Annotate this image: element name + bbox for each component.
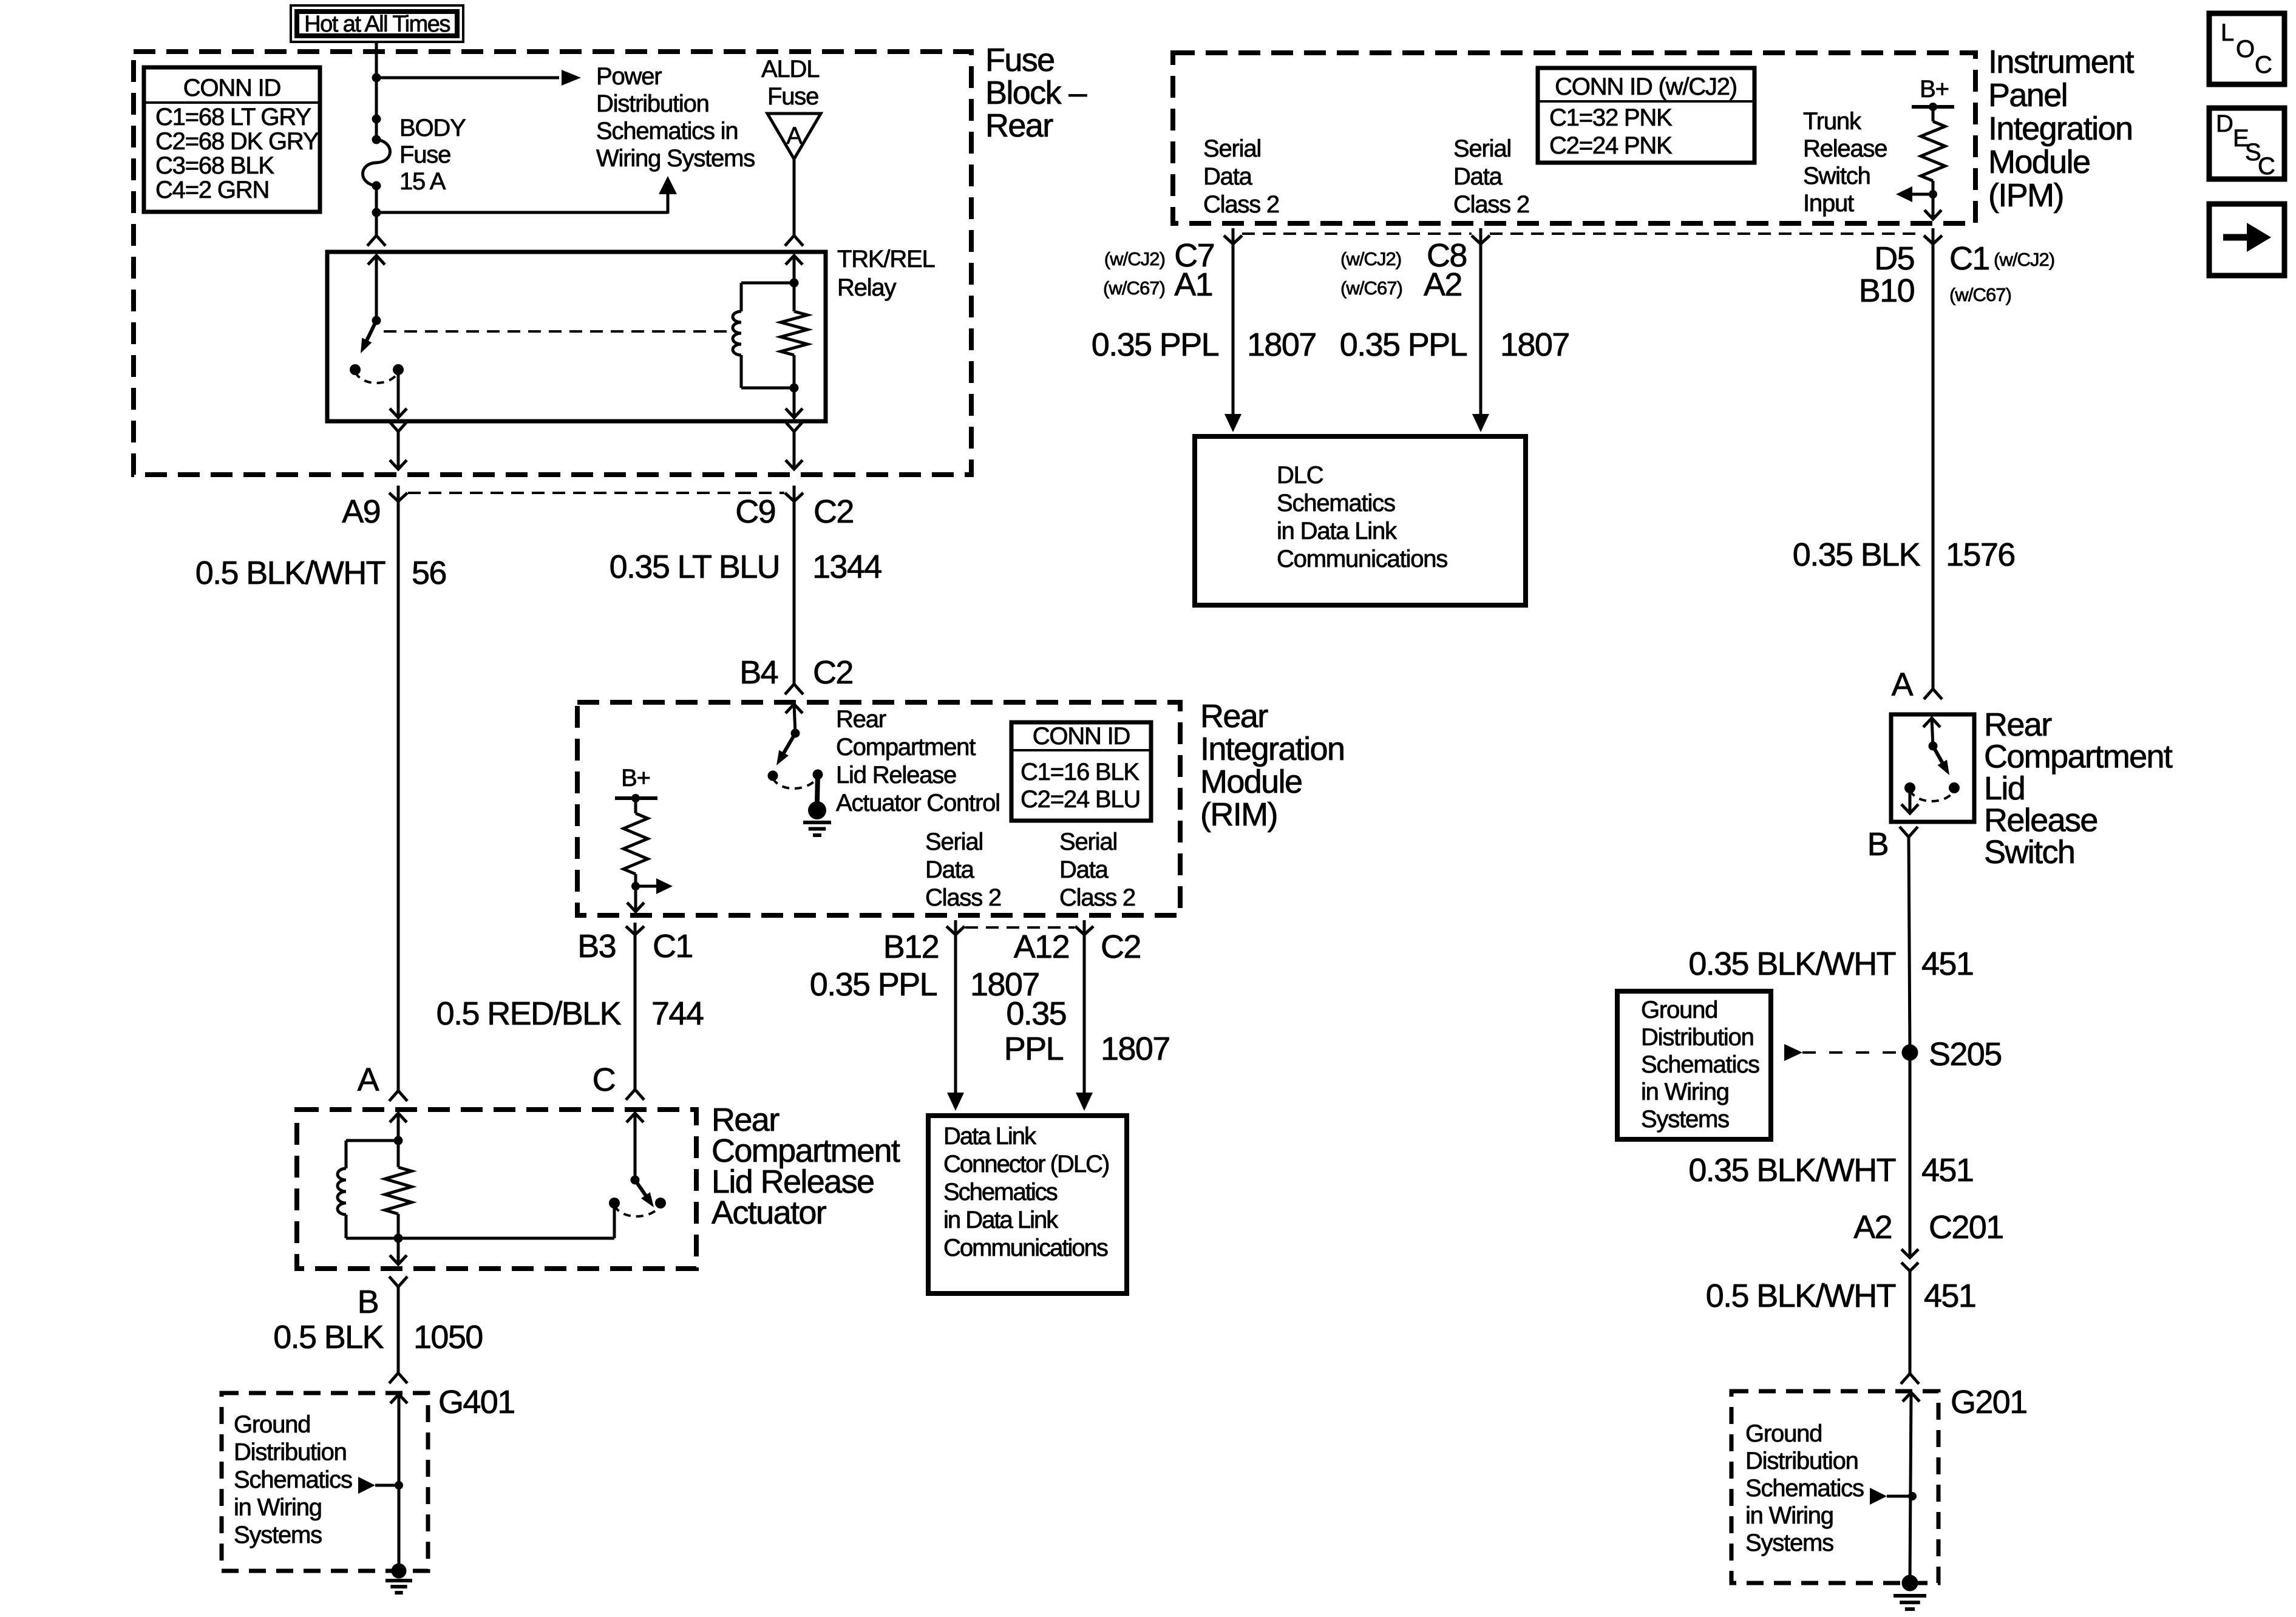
svg-text:Distribution: Distribution xyxy=(596,90,709,117)
connector dashed line B12-A12 xyxy=(965,926,1075,929)
RIM switch pivot dot xyxy=(791,729,800,738)
svg-text:744: 744 xyxy=(651,995,704,1032)
label Serial Data Class 2 (RIM right) xyxy=(1059,829,1135,911)
svg-text:Systems: Systems xyxy=(234,1522,322,1548)
wire 1807 (A12 serial data) xyxy=(1076,935,1093,1111)
svg-text:Input: Input xyxy=(1803,190,1854,217)
relay switch output wire xyxy=(390,370,407,418)
coil actuator solenoid xyxy=(338,1141,398,1238)
svg-text:0.35 BLK/WHT: 0.35 BLK/WHT xyxy=(1688,1152,1895,1188)
svg-text:1807: 1807 xyxy=(1101,1031,1170,1067)
legend box arrow xyxy=(2209,204,2284,276)
label Ground Distribution Schematics in Wiring Systems (G401) xyxy=(234,1411,352,1548)
label Serial Data Class 2 (IPM right) xyxy=(1453,135,1529,218)
junction dot xyxy=(1929,190,1937,198)
label Power Distribution Schematics in Wiring Systems xyxy=(596,63,755,172)
svg-text:Switch: Switch xyxy=(1803,163,1870,189)
actuator entry arrow C xyxy=(627,1113,644,1180)
pin label A (actuator) xyxy=(358,1062,379,1098)
svg-text:Integration: Integration xyxy=(1200,731,1344,767)
svg-text:(w/CJ2): (w/CJ2) xyxy=(1994,249,2054,270)
svg-text:ALDL: ALDL xyxy=(761,56,819,83)
legend box LOC xyxy=(2209,13,2284,84)
junction dot xyxy=(372,208,381,217)
wire label 0.35 BLK/WHT 451 (upper) xyxy=(1688,946,1973,982)
wire label 0.35 LT BLU 1344 xyxy=(610,549,882,585)
pin label C9 xyxy=(735,493,775,530)
svg-text:(w/CJ2): (w/CJ2) xyxy=(1340,248,1401,269)
CONN ID table (RIM) xyxy=(1011,722,1151,821)
wire 1807 (C7 serial data) xyxy=(1224,244,1241,432)
svg-text:451: 451 xyxy=(1921,1152,1973,1188)
svg-text:A2: A2 xyxy=(1424,266,1462,303)
svg-text:Data: Data xyxy=(1203,163,1253,190)
svg-text:Trunk: Trunk xyxy=(1803,108,1862,135)
G201 reference arrow xyxy=(1870,1488,1912,1505)
svg-text:C: C xyxy=(2258,153,2275,180)
reference box Data Link Connector (DLC) Schematics xyxy=(928,1116,1127,1293)
connector stub B12 xyxy=(946,920,965,935)
svg-text:C2=24 BLU: C2=24 BLU xyxy=(1021,786,1140,813)
svg-text:Class 2: Class 2 xyxy=(1203,191,1279,218)
label S205 xyxy=(1929,1036,2002,1073)
wire label 0.35 PPL 1807 (A12) xyxy=(1004,995,1170,1067)
pin label D5 B10 xyxy=(1859,240,1914,309)
svg-text:DLC: DLC xyxy=(1277,462,1323,489)
svg-text:Lid Release: Lid Release xyxy=(836,762,956,788)
legend box DESC xyxy=(2209,108,2284,180)
connector dashed line C7-C8-D5 xyxy=(1242,232,1923,235)
RIM switch ground xyxy=(803,775,831,835)
svg-text:Actuator: Actuator xyxy=(712,1195,827,1231)
svg-text:(IPM): (IPM) xyxy=(1988,177,2063,214)
module label Instrument Panel Integration Module (IPM) xyxy=(1988,44,2135,214)
svg-text:C1=16 BLK: C1=16 BLK xyxy=(1021,759,1140,785)
svg-text:Communications: Communications xyxy=(943,1235,1108,1261)
module Instrument Panel Integration Module (dashed box) xyxy=(1173,53,1975,223)
wire branch to Power Distribution + arrow xyxy=(376,70,581,86)
svg-text:B3: B3 xyxy=(577,928,616,964)
label Serial Data Class 2 (RIM left) xyxy=(925,829,1001,911)
svg-text:C2: C2 xyxy=(813,654,853,691)
IPM trunk release input arrow (left) xyxy=(1896,186,1933,202)
relay switch contact dots xyxy=(350,364,404,375)
svg-text:Module: Module xyxy=(1200,764,1302,800)
wire label 0.5 BLK 1050 xyxy=(273,1319,482,1355)
junction dot xyxy=(372,115,381,124)
svg-text:1576: 1576 xyxy=(1946,537,2015,573)
relay switch arm (movable contact) xyxy=(361,320,376,353)
svg-text:D: D xyxy=(2216,110,2233,137)
connector stub A12 xyxy=(1075,920,1093,935)
label ALDL Fuse xyxy=(761,56,819,110)
svg-text:CONN ID: CONN ID xyxy=(183,75,281,101)
svg-text:(w/C67): (w/C67) xyxy=(1340,277,1402,299)
svg-text:0.35 PPL: 0.35 PPL xyxy=(810,966,937,1003)
svg-text:(w/C67): (w/C67) xyxy=(1103,277,1165,299)
svg-text:Ground: Ground xyxy=(1641,997,1717,1023)
svg-text:1050: 1050 xyxy=(413,1319,483,1355)
actuator switch pivot dot xyxy=(631,1176,640,1185)
wire 744 (B3 to actuator pin C) xyxy=(626,935,644,1100)
pin label (w/CJ2) C7 xyxy=(1104,237,1214,274)
wire 1576 (D5 to switch pin A) xyxy=(1924,244,1942,699)
svg-text:Rear: Rear xyxy=(836,706,886,733)
svg-text:0.35 BLK: 0.35 BLK xyxy=(1793,537,1921,573)
fuse BODY Fuse 15 A (S-curve symbol) xyxy=(363,135,390,191)
pin label (w/CJ2) C8 xyxy=(1340,237,1467,274)
svg-text:Ground: Ground xyxy=(1745,1420,1822,1447)
svg-text:Distribution: Distribution xyxy=(1641,1024,1754,1051)
svg-text:(RIM): (RIM) xyxy=(1200,796,1277,833)
svg-text:Block –: Block – xyxy=(985,75,1087,111)
svg-text:0.35 PPL: 0.35 PPL xyxy=(1340,327,1467,363)
svg-text:C1=68 LT GRY: C1=68 LT GRY xyxy=(155,104,311,131)
svg-text:C201: C201 xyxy=(1929,1209,2003,1246)
svg-text:Integration: Integration xyxy=(1988,110,2132,147)
svg-text:Data: Data xyxy=(925,856,975,883)
wire relay output left to connector xyxy=(389,421,407,469)
svg-text:Switch: Switch xyxy=(1984,834,2074,870)
connector Y below switch xyxy=(1900,827,1918,837)
junction dot xyxy=(790,384,799,393)
wire 1807 (C8 serial data) xyxy=(1472,244,1489,432)
svg-text:Panel: Panel xyxy=(1988,77,2067,114)
svg-text:Fuse: Fuse xyxy=(399,141,450,168)
svg-text:C2: C2 xyxy=(813,493,854,530)
svg-text:0.35 BLK/WHT: 0.35 BLK/WHT xyxy=(1688,946,1895,982)
svg-text:A2: A2 xyxy=(1853,1209,1892,1246)
pin label A2 C201 xyxy=(1853,1209,2003,1246)
svg-text:Data: Data xyxy=(1059,856,1109,883)
svg-text:TRK/REL: TRK/REL xyxy=(837,246,935,273)
svg-text:Serial: Serial xyxy=(1203,135,1261,162)
svg-text:Compartment: Compartment xyxy=(1984,739,2173,775)
label TRK/REL Relay xyxy=(837,246,935,301)
svg-text:A1: A1 xyxy=(1174,266,1212,303)
svg-text:A9: A9 xyxy=(342,493,380,530)
relay coil xyxy=(733,283,794,388)
ground G201 (dashed box) xyxy=(1731,1391,1938,1583)
RIM switch arm xyxy=(776,733,795,765)
pin label C2 (of B4) xyxy=(813,654,853,691)
svg-text:1807: 1807 xyxy=(1247,327,1316,363)
wire ALDL fuse to relay xyxy=(785,159,803,246)
svg-text:0.35 LT BLU: 0.35 LT BLU xyxy=(610,549,779,585)
svg-text:Schematics: Schematics xyxy=(234,1466,352,1493)
actuator switch contact dots xyxy=(609,1198,666,1209)
svg-text:Systems: Systems xyxy=(1745,1530,1833,1556)
svg-text:BODY: BODY xyxy=(399,115,466,141)
svg-text:C: C xyxy=(593,1062,615,1098)
svg-text:Rear: Rear xyxy=(1200,698,1268,734)
svg-text:Rear: Rear xyxy=(1984,707,2052,743)
svg-text:Schematics: Schematics xyxy=(1277,490,1395,517)
actuator switch wire to coil node xyxy=(398,1203,614,1238)
svg-text:B4: B4 xyxy=(739,654,778,691)
ground G401 (dashed box) xyxy=(222,1393,428,1571)
label G401 xyxy=(438,1384,515,1420)
actuator entry arrow A xyxy=(390,1113,407,1141)
svg-text:C4=2 GRN: C4=2 GRN xyxy=(155,177,269,203)
RIM pull-up exit arrow xyxy=(627,903,644,912)
connector stub C9 xyxy=(785,486,803,501)
wire 1344 (C9 to RIM pin B4) xyxy=(785,501,803,694)
RIM B+ bar and dot xyxy=(615,794,657,802)
S205 reference dashed arrow xyxy=(1784,1044,1899,1061)
wire battery feed (Hot at All Times down to relay) xyxy=(367,42,385,246)
svg-text:B: B xyxy=(1867,826,1888,863)
svg-text:B+: B+ xyxy=(621,765,650,792)
svg-text:Systems: Systems xyxy=(1641,1106,1729,1133)
svg-text:451: 451 xyxy=(1924,1278,1975,1314)
RIM actuator control entry arrow xyxy=(786,704,803,733)
svg-text:Release: Release xyxy=(1803,135,1887,162)
connector dashed line A9-C9 xyxy=(408,492,784,494)
svg-text:Distribution: Distribution xyxy=(1745,1448,1858,1474)
label Trunk Release Switch Input xyxy=(1803,108,1887,217)
svg-text:Wiring Systems: Wiring Systems xyxy=(596,145,755,172)
ground symbol G201 xyxy=(1894,1575,1926,1610)
RIM switch contact dots xyxy=(768,770,823,781)
module label Rear Compartment Lid Release Actuator xyxy=(712,1102,900,1231)
svg-text:Serial: Serial xyxy=(1059,829,1117,855)
svg-text:D5: D5 xyxy=(1874,240,1914,277)
svg-text:CONN ID (w/CJ2): CONN ID (w/CJ2) xyxy=(1555,73,1737,100)
svg-text:0.5 RED/BLK: 0.5 RED/BLK xyxy=(436,995,622,1032)
junction dot xyxy=(394,1234,403,1243)
svg-text:Lid: Lid xyxy=(1984,770,2025,807)
svg-text:C2=24 PNK: C2=24 PNK xyxy=(1549,132,1673,159)
svg-text:0.5 BLK/WHT: 0.5 BLK/WHT xyxy=(195,555,385,591)
svg-text:C1: C1 xyxy=(1949,240,1989,277)
junction dot xyxy=(631,882,640,890)
connector end at G201 xyxy=(1901,1374,1919,1384)
resistor IPM pull-up xyxy=(1921,107,1945,219)
svg-text:(w/C67): (w/C67) xyxy=(1949,284,2011,305)
svg-text:Module: Module xyxy=(1988,144,2090,180)
svg-text:C1: C1 xyxy=(653,928,693,964)
G201 entry arrow xyxy=(1903,1392,1920,1583)
svg-text:Hot at All Times: Hot at All Times xyxy=(304,12,450,37)
fuse ALDL (triangle symbol with A) xyxy=(767,114,821,159)
connector stub B3 xyxy=(626,923,644,935)
svg-text:B: B xyxy=(358,1284,378,1320)
pin label C1 (w/CJ2) (w/C67) xyxy=(1949,240,2054,305)
svg-text:Schematics in: Schematics in xyxy=(596,118,738,144)
svg-text:Distribution: Distribution xyxy=(234,1439,347,1466)
svg-text:in Wiring: in Wiring xyxy=(1641,1079,1729,1105)
connector stub C7 xyxy=(1224,228,1242,244)
pin label (w/C67) A1 xyxy=(1103,266,1212,303)
wire label 0.35 PPL 1807 (C7) xyxy=(1092,327,1316,363)
svg-text:Fuse: Fuse xyxy=(767,83,818,110)
svg-text:Schematics: Schematics xyxy=(1745,1475,1864,1502)
wire label 0.35 PPL 1807 (C8) xyxy=(1340,327,1569,363)
switch dashed arc xyxy=(1910,790,1954,801)
pin label C2 (of C9) xyxy=(813,493,854,530)
ground symbol G401 xyxy=(385,1564,412,1593)
junction dot xyxy=(1908,1492,1917,1500)
svg-text:Release: Release xyxy=(1984,802,2097,839)
svg-text:B10: B10 xyxy=(1859,273,1914,309)
junction dot xyxy=(372,73,381,83)
connector stub A9 xyxy=(389,486,407,501)
switch pivot dot xyxy=(1929,742,1938,751)
junction dot xyxy=(790,279,799,288)
wire label 0.5 BLK/WHT 451 xyxy=(1706,1278,1976,1314)
svg-text:G401: G401 xyxy=(438,1384,515,1420)
pin label A12 xyxy=(1014,929,1069,965)
module label Fuse Block - Rear xyxy=(985,42,1087,144)
svg-text:O: O xyxy=(2236,36,2254,63)
svg-text:0.5 BLK: 0.5 BLK xyxy=(273,1319,384,1355)
IPM B+ label xyxy=(1920,76,1949,103)
wire relay output right to connector xyxy=(785,421,803,469)
wire 1807 (B12 serial data) xyxy=(947,935,964,1111)
module Rear Compartment Lid Release Actuator (dashed box) xyxy=(297,1110,696,1269)
pin label C2 (of A12) xyxy=(1101,929,1141,965)
svg-text:Data Link: Data Link xyxy=(943,1123,1037,1150)
module Rear Integration Module (dashed box) xyxy=(577,702,1180,915)
relay entry arrow right xyxy=(786,256,803,283)
module label Rear Compartment Lid Release Switch xyxy=(1984,707,2173,870)
pin label A (switch) xyxy=(1892,666,1914,703)
pin label B3 xyxy=(577,928,616,964)
connector stub C8 xyxy=(1472,228,1490,244)
switch arm xyxy=(1933,746,1949,775)
junction dot xyxy=(394,1136,403,1145)
CONN ID table (fuse block) xyxy=(144,67,320,212)
IPM B+ bar and dot xyxy=(1912,103,1954,111)
relay control dashed line xyxy=(384,330,732,333)
connector C201 (double chevron) xyxy=(1901,1249,1918,1374)
IPM exit arrow xyxy=(1924,210,1941,219)
pin label (w/C67) A2 xyxy=(1340,266,1462,303)
wire label 0.5 BLK/WHT 56 xyxy=(195,555,446,591)
switch Rear Compartment Lid Release (box) xyxy=(1891,714,1974,822)
svg-text:CONN ID: CONN ID xyxy=(1033,723,1130,750)
svg-text:Class 2: Class 2 xyxy=(1453,191,1529,218)
svg-text:56: 56 xyxy=(412,555,446,591)
svg-text:C1=32 PNK: C1=32 PNK xyxy=(1549,104,1673,131)
reference box Ground Distribution Schematics (S205) xyxy=(1617,991,1771,1139)
svg-text:in Wiring: in Wiring xyxy=(234,1494,322,1521)
wire 1050 (actuator B to G401) xyxy=(389,1287,407,1383)
connector Y below actuator xyxy=(389,1276,407,1287)
svg-text:S205: S205 xyxy=(1929,1036,2002,1073)
label BODY Fuse 15 A xyxy=(399,115,466,195)
pin label B (switch) xyxy=(1867,826,1888,863)
label Rear Compartment Lid Release Actuator Control xyxy=(836,706,1000,816)
pin label A9 xyxy=(342,493,380,530)
svg-text:Schematics: Schematics xyxy=(1641,1051,1759,1078)
wire label 0.35 BLK 1576 xyxy=(1793,537,2015,573)
relay entry arrow left xyxy=(368,256,385,320)
svg-text:Compartment: Compartment xyxy=(836,734,976,761)
RIM switch dashed arc xyxy=(773,777,818,788)
svg-text:Data: Data xyxy=(1453,163,1503,190)
actuator switch arm xyxy=(635,1180,654,1207)
actuator exit arrow B xyxy=(390,1238,407,1264)
resistor actuator xyxy=(385,1141,412,1238)
svg-text:1344: 1344 xyxy=(812,549,881,585)
svg-text:15 A: 15 A xyxy=(399,168,446,195)
relay switch pivot dot xyxy=(372,316,381,325)
svg-text:Connector (DLC): Connector (DLC) xyxy=(943,1151,1109,1178)
svg-text:Rear: Rear xyxy=(985,107,1053,144)
pin label C (actuator) xyxy=(593,1062,615,1098)
pin label B (actuator) xyxy=(358,1284,378,1320)
splice dot S205 xyxy=(1902,1045,1918,1061)
wire branch to Wiring Systems up-arrow xyxy=(376,176,677,214)
svg-text:C3=68 BLK: C3=68 BLK xyxy=(155,152,274,179)
svg-text:Ground: Ground xyxy=(234,1411,310,1438)
label Serial Data Class 2 (IPM left) xyxy=(1203,135,1279,218)
svg-text:Class 2: Class 2 xyxy=(925,884,1001,911)
wire label 0.35 BLK/WHT 451 (lower) xyxy=(1688,1152,1973,1188)
svg-text:Schematics: Schematics xyxy=(943,1179,1058,1205)
relay TRK/REL (box) xyxy=(327,252,826,421)
svg-text:Serial: Serial xyxy=(1453,135,1511,162)
switch contact dots xyxy=(1904,782,1960,793)
wire 451 (S205 to C201) xyxy=(1909,1053,1912,1258)
svg-text:L: L xyxy=(2221,19,2233,46)
pin label B4 xyxy=(739,654,778,691)
svg-text:PPL: PPL xyxy=(1004,1031,1064,1067)
pin label C1 (of B3) xyxy=(653,928,693,964)
actuator switch dashed arc xyxy=(614,1205,661,1216)
junction dot xyxy=(395,1481,403,1490)
svg-text:B+: B+ xyxy=(1920,76,1949,103)
svg-text:451: 451 xyxy=(1921,946,1973,982)
svg-text:Instrument: Instrument xyxy=(1988,44,2135,80)
svg-text:A: A xyxy=(358,1062,379,1098)
wire label 0.35 PPL 1807 (B12) xyxy=(810,966,1039,1003)
svg-text:in Data Link: in Data Link xyxy=(1277,518,1398,544)
wire 56 (A9 to actuator pin A) xyxy=(389,501,407,1101)
svg-text:Actuator Control: Actuator Control xyxy=(836,790,1000,816)
svg-text:0.35: 0.35 xyxy=(1006,995,1066,1032)
RIM pull-up branch arrow right xyxy=(636,878,673,894)
module label Rear Integration Module (RIM) xyxy=(1200,698,1344,833)
svg-text:A: A xyxy=(786,123,803,149)
svg-text:Communications: Communications xyxy=(1277,546,1447,572)
G401 reference arrow xyxy=(358,1477,399,1494)
relay switch dashed arc xyxy=(355,372,398,383)
svg-text:C9: C9 xyxy=(735,493,775,530)
CONN ID table (IPM) xyxy=(1538,68,1754,163)
svg-text:C: C xyxy=(2255,52,2272,78)
RIM B+ pull-up label B+ xyxy=(621,765,650,792)
label G201 xyxy=(1951,1384,2027,1420)
svg-text:Power: Power xyxy=(596,63,662,90)
svg-text:in Wiring: in Wiring xyxy=(1745,1502,1833,1529)
svg-text:Serial: Serial xyxy=(925,829,983,855)
svg-text:1807: 1807 xyxy=(1500,327,1569,363)
resistor RIM pull-up xyxy=(623,798,648,912)
svg-text:in Data Link: in Data Link xyxy=(943,1207,1059,1233)
switch entry arrow xyxy=(1923,718,1940,746)
label Ground Distribution Schematics in Wiring Systems (G201) xyxy=(1745,1420,1864,1556)
reference box DLC Schematics in Data Link Communications xyxy=(1195,436,1526,605)
svg-text:Fuse: Fuse xyxy=(985,42,1055,78)
svg-text:Class 2: Class 2 xyxy=(1059,884,1135,911)
svg-text:Relay: Relay xyxy=(837,274,896,301)
svg-text:G201: G201 xyxy=(1951,1384,2027,1420)
svg-text:C2: C2 xyxy=(1101,929,1141,965)
relay coil output wire xyxy=(786,388,803,418)
